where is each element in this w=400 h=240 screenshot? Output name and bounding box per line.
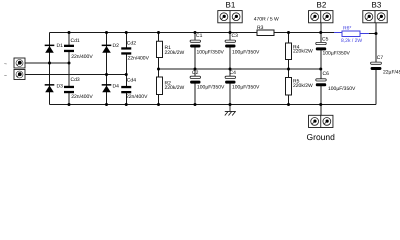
capacitor Cd1 [64, 45, 74, 52]
svg-text:Ground: Ground [307, 132, 336, 142]
svg-text:C5: C5 [322, 37, 329, 43]
terminal block B2 [309, 11, 333, 23]
capacitor C5 (electrolytic) [316, 42, 326, 44]
wire R5 leads [288, 69, 290, 78]
capacitor C3 (electrolytic) [225, 40, 235, 42]
svg-text:C3: C3 [232, 33, 239, 39]
svg-text:Cd1: Cd1 [71, 38, 80, 44]
svg-text:C2: C2 [192, 70, 199, 76]
capacitor C1 (electrolytic) [190, 40, 200, 42]
svg-text:22n/400V: 22n/400V [71, 54, 93, 60]
wire blue stub left of R6 [334, 32, 342, 34]
connector X1 pin 2 (AC input ~) [14, 70, 25, 80]
junction dots AC nodes [48, 62, 128, 77]
junction dots bottom rail [68, 103, 323, 106]
wire Cd2 column [125, 33, 127, 49]
wire ground terminal drop [320, 105, 322, 116]
svg-text:Cd2: Cd2 [127, 40, 136, 46]
capacitor C7 (output electrolytic) [371, 62, 382, 64]
wire Cd1 column [68, 33, 70, 46]
wire C4 leads [229, 69, 231, 77]
wire top rail between R3 and R4 node [274, 32, 334, 34]
svg-text:22µF/450V: 22µF/450V [383, 70, 400, 76]
wire bottom rail 0V [50, 104, 377, 106]
wire top rail V+ left segment [50, 32, 258, 34]
wire C2 leads [194, 69, 196, 77]
resistor R1 [157, 41, 163, 57]
wire D3 column [49, 63, 51, 105]
svg-text:22n/400V: 22n/400V [126, 94, 148, 100]
svg-text:C7: C7 [377, 55, 384, 61]
wire C6 leads [320, 69, 322, 79]
svg-text:220k/2W: 220k/2W [293, 83, 313, 89]
wire B1 to top rail [229, 23, 231, 33]
svg-text:100µF/350V: 100µF/350V [197, 50, 225, 56]
wire R4 leads [288, 33, 290, 44]
wire D4 column [106, 75, 108, 105]
svg-text:220k/2W: 220k/2W [165, 50, 185, 56]
wire R2 leads [158, 69, 160, 77]
diode D1 [45, 45, 55, 53]
svg-text:D4: D4 [113, 83, 120, 89]
svg-text:~: ~ [4, 62, 7, 68]
svg-text:220k/2W: 220k/2W [293, 49, 313, 55]
wire blue stub right of R6 [360, 33, 369, 35]
terminal block Ground [309, 115, 333, 127]
terminal block B1 [218, 11, 242, 23]
svg-text:470R / 5 W: 470R / 5 W [254, 17, 279, 23]
wire mid rail (capacitor midpoint net) [159, 68, 321, 70]
junction dots mid rail [157, 68, 322, 71]
svg-text:Cd4: Cd4 [127, 78, 136, 84]
diode D3 [45, 84, 55, 92]
resistor R3 (series 470R/5W) [257, 30, 274, 36]
svg-text:B2: B2 [317, 1, 327, 10]
svg-text:220k/2W: 220k/2W [165, 85, 185, 91]
svg-text:C4: C4 [230, 70, 237, 76]
svg-text:B1: B1 [226, 1, 236, 10]
capacitor C6 (electrolytic) [316, 79, 326, 81]
diode D2 [102, 45, 112, 53]
wire AC1 from input to bridge [25, 62, 69, 64]
wire C5 leads [320, 33, 322, 43]
wire Cd4 column [125, 75, 127, 87]
wire C3 leads [229, 33, 231, 41]
svg-text:100µF/350V: 100µF/350V [323, 51, 351, 57]
svg-text:100µF/350V: 100µF/350V [232, 85, 260, 91]
ground (chassis) symbol [225, 105, 236, 116]
wire R1 leads [158, 33, 160, 42]
capacitor Cd2 [121, 47, 131, 54]
svg-text:22n/400V: 22n/400V [71, 94, 93, 100]
svg-text:C6: C6 [323, 71, 330, 77]
svg-text:100µF/350V: 100µF/350V [197, 85, 225, 91]
capacitor C4 (electrolytic) [225, 76, 235, 78]
connector X1 pin 1 (AC input ~) [14, 58, 25, 68]
svg-text:B3: B3 [372, 1, 382, 10]
capacitor Cd4 [121, 86, 131, 93]
resistor R5 [286, 78, 292, 96]
svg-text:100µF/350V: 100µF/350V [328, 86, 356, 92]
svg-text:8,2k / 2W: 8,2k / 2W [341, 38, 362, 44]
resistor R4 [286, 43, 292, 60]
capacitor Cd3 [64, 86, 74, 93]
wire C7 leads [375, 34, 377, 63]
svg-text:100µF/350V: 100µF/350V [232, 50, 260, 56]
wire top rail to B3 node [369, 33, 376, 35]
wire D1 column [49, 33, 51, 64]
svg-text:R3: R3 [257, 25, 264, 31]
svg-text:D3: D3 [57, 83, 64, 89]
terminal block B3 [363, 11, 387, 23]
junction dots top rail [68, 31, 378, 35]
svg-text:C1: C1 [196, 33, 203, 39]
svg-text:Cd3: Cd3 [71, 77, 80, 83]
capacitor C2 (electrolytic) [190, 76, 200, 78]
svg-text:22n/400V: 22n/400V [128, 56, 150, 62]
svg-text:~: ~ [4, 73, 7, 79]
wire B3 to top rail [375, 23, 377, 34]
svg-text:R6*: R6* [343, 26, 351, 32]
wire Cd3 column [68, 63, 70, 87]
resistor R6* (blue, optional) [342, 31, 360, 37]
wire C1 leads [194, 33, 196, 41]
wire AC2 from input to bridge [25, 74, 126, 76]
diode D4 [102, 84, 112, 92]
resistor R2 [157, 77, 163, 95]
wire D2 column [106, 33, 108, 75]
wire B2 to top rail [320, 23, 322, 33]
svg-text:D1: D1 [57, 43, 64, 49]
svg-text:D2: D2 [113, 43, 120, 49]
